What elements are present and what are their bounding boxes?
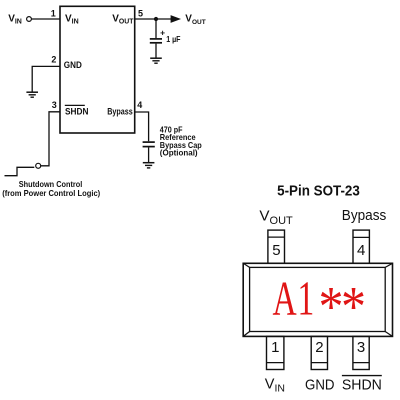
label 470 pF Reference Bypass Cap (Optional) (160, 125, 202, 158)
svg-text:VIN: VIN (65, 13, 79, 25)
svg-text:Bypass: Bypass (107, 106, 133, 117)
package pin 5 box (268, 230, 285, 263)
svg-text:VIN: VIN (265, 376, 285, 394)
svg-text:2: 2 (315, 339, 323, 356)
svg-text:VOUT: VOUT (185, 14, 205, 26)
svg-text:1: 1 (271, 339, 279, 356)
svg-text:1 µF: 1 µF (166, 34, 180, 44)
wire C2 to ground (148, 148, 150, 163)
svg-text:5: 5 (272, 242, 280, 259)
package pin 2 box (311, 336, 327, 369)
wire C1 to ground (155, 44, 157, 58)
wire VOUT output (135, 18, 172, 20)
svg-text:GND: GND (64, 60, 82, 71)
svg-text:3: 3 (357, 339, 365, 356)
svg-text:SHDN: SHDN (65, 107, 89, 118)
wire junction to C1 (155, 19, 157, 38)
package marking A1** (red) (273, 273, 366, 339)
ground (C1) (150, 58, 162, 63)
svg-text:4: 4 (137, 100, 142, 110)
package pin 1 box (267, 336, 284, 369)
svg-text:5: 5 (138, 9, 143, 19)
switch terminal circle (shutdown) (36, 163, 41, 168)
ground (C2) (143, 163, 155, 168)
package pin 3 box (353, 336, 369, 369)
package bevel corner lines (243, 263, 392, 336)
IC U1 body (60, 6, 135, 133)
arrow VOUT (171, 15, 181, 23)
step waveform (shutdown control) (5, 167, 35, 175)
ground (pin2) (26, 92, 38, 97)
svg-text:4: 4 (357, 242, 365, 259)
svg-text:SHDN: SHDN (342, 377, 382, 394)
wire pin4 to C2 (135, 112, 149, 141)
svg-text:A1: A1 (273, 273, 315, 327)
node VIN input terminal circle (27, 17, 32, 22)
svg-text:Bypass: Bypass (342, 207, 387, 224)
package label SHDN (pin 3, with overline) (342, 375, 382, 377)
svg-text:2: 2 (51, 54, 56, 64)
svg-text:VIN: VIN (8, 13, 22, 25)
svg-text:+: + (160, 27, 165, 37)
svg-text:**: ** (319, 274, 366, 338)
capacitor C2 plates (143, 141, 155, 143)
wire pin3 to shutdown switch (41, 112, 60, 166)
wire pin2 to ground (32, 66, 60, 91)
svg-text:(from Power Control Logic): (from Power Control Logic) (2, 188, 100, 198)
svg-text:3: 3 (52, 100, 57, 110)
svg-text:5-Pin SOT-23: 5-Pin SOT-23 (277, 183, 360, 199)
junction dot on VOUT net (154, 17, 158, 21)
package pin 4 box (353, 230, 369, 263)
pin label SHDN inside IC (with overline) (65, 104, 85, 106)
package body outer outline (243, 263, 392, 336)
package body inner outline (250, 267, 386, 331)
svg-text:VOUT: VOUT (259, 208, 293, 228)
svg-text:1: 1 (51, 9, 56, 19)
capacitor C1 plates (150, 38, 162, 40)
svg-text:GND: GND (305, 376, 335, 393)
svg-text:VOUT: VOUT (112, 13, 134, 25)
wire pin1 input (32, 18, 61, 20)
svg-text:(Optional): (Optional) (160, 148, 198, 158)
